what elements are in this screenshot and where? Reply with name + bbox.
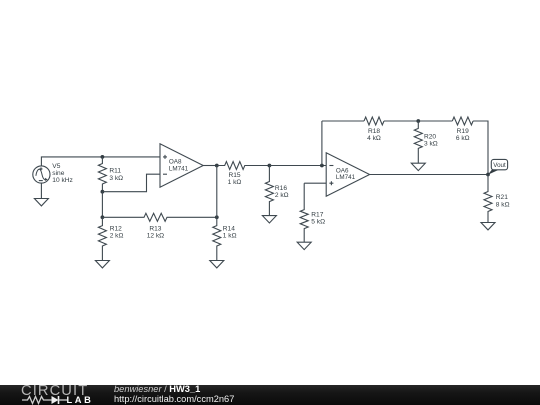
resistor R19	[452, 117, 473, 125]
label R18 4 kΩ	[367, 128, 381, 142]
label R13 12 kΩ	[147, 225, 164, 239]
label OA6 LM741	[336, 167, 356, 181]
wire R13 to node D	[171, 216, 217, 218]
wire R18 to node H	[384, 120, 418, 122]
wire R19 down to node I	[473, 121, 488, 175]
svg-text:R12: R12	[110, 225, 122, 232]
svg-text:1 kΩ: 1 kΩ	[223, 233, 237, 240]
resistor R21	[484, 175, 492, 223]
resistor R14	[213, 217, 221, 260]
CircuitLab logo	[21, 385, 121, 405]
wire node B to OA8 - input	[102, 174, 160, 192]
svg-text:R21: R21	[496, 194, 508, 201]
wire node E down to node D	[216, 166, 218, 218]
wire OA6 + input to R17	[304, 182, 326, 184]
node G junction dot	[320, 164, 324, 168]
svg-text:3 kΩ: 3 kΩ	[424, 141, 438, 148]
logo diode	[52, 396, 59, 404]
svg-text:R16: R16	[275, 185, 287, 192]
svg-text:R18: R18	[368, 128, 380, 135]
wire OA6 output to node I	[370, 174, 488, 176]
node I junction dot	[486, 173, 490, 177]
footer bar	[0, 385, 540, 405]
voltage source V5	[33, 166, 50, 183]
label R20 3 kΩ	[424, 133, 438, 147]
svg-text:2 kΩ: 2 kΩ	[275, 192, 289, 199]
footer credits	[114, 385, 234, 404]
label R21 8 kΩ	[496, 194, 510, 208]
svg-text:2 kΩ: 2 kΩ	[110, 233, 124, 240]
wire R15 to node F	[252, 165, 269, 167]
label OA8 LM741	[169, 159, 189, 173]
resistor R11	[98, 157, 106, 192]
ground (R14)	[210, 261, 224, 268]
label R17 5 kΩ	[311, 211, 325, 225]
svg-text:R15: R15	[228, 172, 240, 179]
svg-text:LM741: LM741	[169, 165, 189, 172]
svg-text:LM741: LM741	[336, 174, 356, 181]
resistor R12	[98, 217, 106, 260]
resistor R17	[300, 183, 308, 242]
op-amp U OA6	[326, 153, 369, 196]
wire node G up to feedback rail	[321, 121, 323, 166]
wire node C to R13	[102, 216, 140, 218]
svg-text:4 kΩ: 4 kΩ	[367, 135, 381, 142]
ground (R12)	[95, 261, 109, 268]
logo resistor	[22, 397, 52, 404]
wire V5 bottom to ground	[40, 183, 42, 198]
svg-text:R20: R20	[424, 133, 436, 140]
svg-text:R13: R13	[149, 225, 161, 232]
svg-text:6 kΩ: 6 kΩ	[456, 135, 470, 142]
node B junction dot	[101, 190, 105, 194]
svg-text:sine: sine	[52, 170, 64, 177]
wire node H to R19	[418, 120, 452, 122]
resistor R18	[364, 117, 384, 125]
svg-text:12 kΩ: 12 kΩ	[147, 233, 164, 240]
resistor R16	[265, 166, 273, 216]
ground (V5)	[34, 199, 48, 206]
wire V5 top to node A	[41, 157, 102, 166]
wire node F to OA6 - input	[269, 165, 326, 167]
svg-text:3 kΩ: 3 kΩ	[109, 175, 123, 182]
label R11 3 kΩ	[109, 168, 123, 182]
svg-text:R19: R19	[457, 128, 469, 135]
wire node B to node C	[101, 192, 103, 218]
svg-text:R17: R17	[311, 211, 323, 218]
node C junction dot	[101, 215, 105, 219]
op-amp U OA8	[160, 144, 203, 187]
label R15 1 kΩ	[228, 172, 242, 186]
svg-text:8 kΩ: 8 kΩ	[496, 201, 510, 208]
svg-text:10 kHz: 10 kHz	[52, 177, 73, 184]
ground (R16)	[262, 216, 276, 223]
svg-text:1 kΩ: 1 kΩ	[228, 179, 242, 186]
label R14 1 kΩ	[223, 225, 237, 239]
node A junction dot	[101, 155, 105, 159]
label R16 2 kΩ	[275, 185, 289, 199]
svg-text:V5: V5	[52, 163, 60, 170]
node F junction dot	[268, 164, 272, 168]
wire OA8 output to node E	[203, 165, 217, 167]
node H junction dot	[416, 119, 420, 123]
ground (R21)	[481, 223, 495, 230]
node E junction dot	[215, 164, 219, 168]
net flag Vout	[488, 159, 508, 174]
resistor R13	[140, 213, 171, 221]
label R19 6 kΩ	[456, 128, 470, 142]
svg-text:Vout: Vout	[493, 162, 506, 169]
label R12 2 kΩ	[110, 225, 124, 239]
ground (R20)	[411, 163, 425, 170]
resistor R15	[217, 162, 252, 170]
ground (R17)	[297, 242, 311, 249]
resistor R20	[414, 121, 422, 163]
svg-text:R11: R11	[109, 168, 121, 175]
wire node A to OA8 + input	[102, 156, 160, 158]
wire feedback rail left	[322, 120, 364, 122]
svg-text:R14: R14	[223, 225, 235, 232]
label V5 sine 10 kHz	[52, 163, 73, 184]
node D junction dot	[215, 215, 219, 219]
svg-text:5 kΩ: 5 kΩ	[311, 219, 325, 226]
